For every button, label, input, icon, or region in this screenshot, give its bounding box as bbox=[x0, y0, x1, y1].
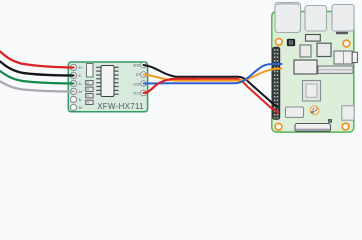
micro SD slot bbox=[295, 124, 331, 132]
resistor R2 bbox=[86, 87, 93, 91]
pad B- bbox=[70, 96, 76, 102]
camera connector (black striped) bbox=[287, 39, 295, 46]
USB port J1 (top-left) bbox=[275, 3, 301, 33]
logo circle bbox=[310, 106, 319, 115]
resistor R3 bbox=[86, 94, 93, 98]
resistor R1 bbox=[86, 81, 93, 85]
svg-text:A-: A- bbox=[79, 82, 82, 86]
tiny component bbox=[328, 119, 331, 122]
pad A- bbox=[70, 80, 76, 86]
mounting hole bottom-left bbox=[275, 123, 282, 130]
right pad labels bbox=[133, 63, 141, 95]
chip A bbox=[300, 45, 311, 57]
wire red VCC overlay (over blue at crossing) bbox=[144, 79, 199, 93]
wire blue SCK to Pi bbox=[144, 64, 282, 84]
Raspberry Pi board bbox=[272, 12, 354, 133]
wire orange DT to Pi bbox=[144, 69, 282, 81]
pad GND bbox=[141, 62, 147, 68]
mounting hole top-right bbox=[343, 40, 350, 47]
pad E+ bbox=[70, 64, 76, 70]
GPIO header J8 bbox=[273, 47, 280, 119]
svg-text:XFW-HX711: XFW-HX711 bbox=[97, 102, 143, 111]
pad DT bbox=[141, 72, 147, 78]
wire red VCC to Pi bbox=[144, 79, 279, 113]
left pad labels bbox=[79, 66, 83, 110]
svg-text:A+: A+ bbox=[79, 90, 83, 94]
USB port J2 (top-middle) bbox=[305, 6, 327, 32]
HX711 module U1 bbox=[68, 62, 147, 112]
resistor R4 bbox=[86, 100, 93, 104]
pad A+ bbox=[70, 88, 76, 94]
ethernet port J3 (top-right) bbox=[332, 5, 354, 35]
display connector bbox=[306, 35, 321, 42]
IC HX711 bbox=[96, 66, 118, 97]
flex cable connector bbox=[318, 66, 353, 73]
capacitor (small rect) bbox=[87, 64, 94, 78]
pad SCK bbox=[141, 81, 147, 87]
svg-text:E-: E- bbox=[79, 74, 82, 78]
pad VCC bbox=[141, 90, 147, 96]
HDMI connector bbox=[334, 51, 357, 64]
wire black (load cell E-) bbox=[0, 61, 74, 75]
pad B+ bbox=[70, 104, 76, 110]
svg-text:B-: B- bbox=[79, 98, 82, 102]
svg-text:VCC: VCC bbox=[133, 91, 141, 95]
svg-text:DT: DT bbox=[136, 73, 140, 77]
svg-text:GND: GND bbox=[133, 63, 141, 67]
mounting hole bottom-right bbox=[342, 123, 349, 130]
wire gray (load cell A+) bbox=[0, 81, 74, 91]
svg-text:SCK: SCK bbox=[133, 82, 141, 86]
chip B bbox=[317, 43, 331, 56]
mounting hole top-left bbox=[275, 39, 282, 46]
memory chip bbox=[294, 60, 317, 74]
component D (bottom-right) bbox=[342, 106, 354, 120]
svg-text:E+: E+ bbox=[79, 66, 83, 70]
component C (rect near header) bbox=[286, 107, 304, 117]
wire red (load cell E+) bbox=[0, 52, 74, 68]
SoC U2 bbox=[303, 81, 321, 102]
wire black GND to Pi bbox=[144, 65, 278, 107]
wire green (load cell A-) bbox=[0, 71, 74, 84]
pad E- bbox=[70, 72, 76, 78]
svg-text:B+: B+ bbox=[79, 106, 83, 110]
